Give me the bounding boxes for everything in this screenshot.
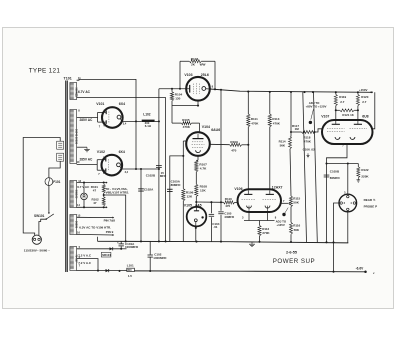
capacitor C102 bbox=[148, 241, 153, 272]
wire V104 grid bbox=[199, 123, 201, 133]
svg-text:-6.6V: -6.6V bbox=[356, 267, 364, 271]
wire 6.3V top bbox=[77, 217, 115, 219]
V105 gas dot bbox=[201, 216, 203, 218]
pentode V104 label bbox=[202, 125, 220, 132]
V104 cathode bbox=[196, 150, 201, 152]
note heater destinations bbox=[105, 187, 129, 195]
capacitor C105A label bbox=[171, 180, 182, 187]
switch SW101 bbox=[46, 212, 54, 220]
pentode tube V103 bbox=[186, 77, 210, 101]
mains label 115/230V 50/60 cy bbox=[24, 248, 50, 252]
pin 8 label bbox=[78, 109, 80, 113]
V103 plate bbox=[186, 85, 189, 93]
dual triode V106 label bbox=[234, 185, 282, 191]
wire V107 pin7 down bbox=[327, 144, 348, 242]
wire humdinger center bbox=[103, 193, 126, 241]
svg-text:PIN 7&8: PIN 7&8 bbox=[104, 219, 116, 223]
label -6.6V bbox=[356, 267, 364, 271]
pin 7 label bbox=[79, 263, 81, 267]
transformer secondary winding (6.3V) bbox=[70, 215, 78, 235]
wire switch to plug right bbox=[39, 219, 46, 235]
svg-text:1000MFD: 1000MFD bbox=[125, 245, 139, 249]
capacitor C102B bbox=[156, 165, 162, 167]
transformer primary tap box upper bbox=[57, 141, 64, 149]
svg-text:50K: 50K bbox=[293, 201, 299, 205]
svg-text:220K: 220K bbox=[361, 174, 369, 178]
V101 plates bbox=[104, 111, 106, 124]
wire V106 pin7 to pot bbox=[281, 202, 289, 204]
svg-text:F101: F101 bbox=[53, 180, 60, 184]
capacitor C102B label bbox=[146, 171, 166, 178]
svg-text:R105: R105 bbox=[182, 118, 190, 122]
pin 5 label bbox=[79, 245, 81, 249]
rectifier tube V102 bbox=[102, 155, 123, 176]
svg-text:80MFD: 80MFD bbox=[330, 176, 341, 180]
wire probe feed horizontal bbox=[325, 162, 358, 164]
wire V105 node bbox=[196, 201, 223, 203]
svg-text:47: 47 bbox=[93, 201, 97, 205]
label 285V AC upper bbox=[80, 118, 94, 122]
wire V104 bottom pin bbox=[196, 156, 198, 161]
junction heater/V102 cathode bbox=[135, 168, 137, 170]
svg-text:300: 300 bbox=[127, 269, 132, 272]
svg-text:1M: 1M bbox=[295, 127, 300, 131]
wire -6.6V rail bbox=[134, 270, 365, 273]
svg-text:56K: 56K bbox=[294, 228, 300, 232]
capacitor C101A bbox=[117, 240, 124, 249]
wire HV bottom to V102 plates bbox=[77, 160, 104, 171]
ground bus junctions bbox=[125, 240, 335, 243]
svg-text:V107: V107 bbox=[321, 115, 329, 119]
svg-text:R109: R109 bbox=[230, 140, 238, 144]
capacitor C104 bbox=[209, 214, 214, 241]
svg-text:2-6-55: 2-6-55 bbox=[286, 250, 297, 254]
wire 7.2V bottom with diode bbox=[77, 269, 128, 272]
wire R103 right leg bbox=[214, 61, 216, 89]
V106 grids bbox=[242, 199, 277, 201]
svg-text:470K: 470K bbox=[304, 139, 312, 143]
pentode tube V104 bbox=[186, 132, 210, 156]
svg-text:R119: R119 bbox=[339, 95, 346, 99]
wire 6.3V bottom bbox=[77, 234, 115, 236]
label 6.7V AC heater bbox=[77, 185, 90, 189]
resistor R119 label bbox=[339, 95, 346, 104]
svg-text:PROBE P: PROBE P bbox=[364, 205, 378, 209]
svg-text:6X4: 6X4 bbox=[119, 102, 125, 106]
resistor R120 bbox=[356, 92, 359, 120]
svg-text:L101: L101 bbox=[127, 263, 134, 267]
wire C104 branch bbox=[210, 202, 212, 213]
transformer secondary winding (6.7V AC top) bbox=[70, 83, 78, 100]
svg-text:12K: 12K bbox=[187, 195, 193, 199]
svg-text:6.1H: 6.1H bbox=[145, 124, 151, 128]
svg-text:47: 47 bbox=[93, 189, 97, 193]
V101 grid dashes bbox=[108, 112, 110, 124]
junction C104 bbox=[210, 201, 212, 203]
V103 pin 8 label bbox=[212, 85, 214, 89]
svg-text:REAR ½: REAR ½ bbox=[364, 198, 376, 202]
ground HV center tap bbox=[77, 147, 90, 152]
label 6.7V AC top bbox=[78, 90, 91, 94]
svg-text:470: 470 bbox=[225, 204, 230, 208]
junction heater/V101 cathode bbox=[135, 120, 137, 122]
potentiometer R115 bbox=[289, 196, 293, 207]
V102 grid dashes bbox=[108, 159, 110, 171]
capacitor C105 bbox=[218, 212, 223, 242]
terminal +150V arrow bbox=[370, 91, 373, 93]
V107 plates bbox=[332, 120, 362, 124]
wire R107 to R108 bbox=[195, 172, 197, 184]
svg-text:365103: 365103 bbox=[74, 190, 78, 199]
svg-text:12K: 12K bbox=[200, 189, 206, 193]
junction heater top bbox=[83, 182, 105, 184]
wire winding pin11 heater top bbox=[77, 79, 136, 169]
resistor R113 label bbox=[272, 117, 280, 126]
junction V102 wire / C102A branch bbox=[140, 168, 142, 170]
wire socket top pin bbox=[347, 164, 349, 195]
inductor L101 value bbox=[128, 274, 132, 278]
rectifier V101 label bbox=[96, 102, 125, 106]
wire socket left pin to -6.6V bbox=[334, 203, 341, 272]
wire fuse to switch bbox=[48, 186, 50, 213]
V104 grids bbox=[192, 142, 205, 148]
svg-text:36042 10538: 36042 10538 bbox=[74, 129, 78, 145]
wire 7.2V top with diode bbox=[77, 247, 122, 250]
inductor L102 values bbox=[145, 121, 151, 128]
svg-text:80MFD: 80MFD bbox=[171, 183, 182, 187]
label +150V bbox=[359, 88, 368, 92]
svg-text:36208: 36208 bbox=[74, 221, 78, 229]
V102 plates bbox=[104, 158, 106, 172]
svg-text:6AU6: 6AU6 bbox=[211, 128, 220, 132]
svg-text:.01: .01 bbox=[213, 225, 218, 229]
V105 cathode bbox=[194, 219, 197, 226]
svg-text:40MFD: 40MFD bbox=[224, 215, 235, 219]
resistor R103 bbox=[180, 60, 215, 63]
label 285V AC lower bbox=[80, 157, 94, 161]
resistor R121 label bbox=[342, 113, 354, 117]
resistor R122 bbox=[357, 164, 360, 178]
svg-text:6.3V AC TO V109 HTR.: 6.3V AC TO V109 HTR. bbox=[79, 226, 111, 230]
resistor R105 label bbox=[182, 118, 191, 129]
svg-text:1000MFD: 1000MFD bbox=[153, 256, 167, 260]
svg-text:115/230V~ 50/60 ~: 115/230V~ 50/60 ~ bbox=[24, 248, 50, 252]
triode-pentode tube V107 bbox=[322, 120, 373, 144]
svg-text:470K: 470K bbox=[273, 122, 281, 126]
wire primary top to plug left bbox=[23, 138, 60, 236]
wire winding pin12 heater bus bbox=[77, 98, 166, 242]
svg-text:R122: R122 bbox=[361, 168, 369, 172]
wire V107 right pin bbox=[373, 92, 375, 129]
resistor R110 label bbox=[225, 197, 232, 208]
svg-text:R113: R113 bbox=[272, 117, 279, 121]
resistor R108 bbox=[195, 184, 198, 196]
inductor L102 bbox=[142, 120, 159, 122]
resistor R109 bbox=[230, 143, 250, 146]
V107 pin 7 label bbox=[342, 144, 344, 148]
V104 plate bbox=[193, 134, 204, 139]
fuse F101 label bbox=[53, 180, 60, 184]
wire V103 bottom pin bbox=[197, 101, 199, 107]
svg-text:12AX7: 12AX7 bbox=[272, 185, 283, 189]
note 6.3V destination bbox=[79, 226, 111, 230]
capacitor C101A label bbox=[125, 242, 139, 249]
pin 6 label bbox=[79, 255, 81, 259]
label 7.2V upper bbox=[78, 254, 92, 258]
transformer T101 label bbox=[64, 77, 72, 81]
svg-text:470: 470 bbox=[231, 149, 236, 153]
capacitor C105 label bbox=[224, 211, 235, 219]
svg-text:270K: 270K bbox=[262, 231, 270, 235]
svg-text:C105B: C105B bbox=[330, 169, 340, 173]
svg-text:L102: L102 bbox=[143, 113, 150, 117]
svg-text:TYPE 121: TYPE 121 bbox=[29, 67, 61, 74]
resistor R116 label bbox=[293, 224, 300, 232]
V106 cathodes bbox=[247, 206, 270, 212]
svg-text:MFD: MFD bbox=[160, 174, 166, 178]
potentiometer R115 label bbox=[293, 196, 300, 204]
svg-text:1.5: 1.5 bbox=[128, 274, 132, 278]
resistor R107 bbox=[195, 160, 198, 172]
wire C101A stub bbox=[121, 248, 126, 250]
V106 pin digits bbox=[242, 199, 285, 220]
socket pin digits bbox=[344, 191, 353, 206]
plug P101 bbox=[32, 235, 41, 244]
wire heater top bbox=[77, 182, 108, 184]
wire R104 bottom bbox=[172, 101, 198, 123]
regulator tube V105 bbox=[187, 207, 207, 227]
pentode V103 label bbox=[184, 73, 208, 77]
transformer secondary winding (285-0-285V) bbox=[70, 110, 78, 164]
svg-text:+150V: +150V bbox=[359, 88, 368, 92]
resistor R110 bbox=[224, 201, 238, 204]
svg-text:C106 .02: C106 .02 bbox=[303, 147, 316, 151]
date 2-6-55 bbox=[286, 250, 297, 254]
svg-text:285V AC: 285V AC bbox=[80, 157, 94, 161]
capacitor C105A bbox=[167, 189, 173, 192]
svg-text:C102A: C102A bbox=[144, 187, 154, 191]
transformer secondary winding (6.7V AC heater) bbox=[70, 181, 78, 208]
svg-text:R121 1K: R121 1K bbox=[342, 113, 354, 117]
ground bus symbol bbox=[249, 242, 255, 247]
label 7.2V lower bbox=[78, 261, 92, 265]
wire C102A branch bbox=[140, 169, 142, 241]
V101 pin digits bbox=[99, 109, 127, 128]
svg-text:7.2 V A.C: 7.2 V A.C bbox=[78, 254, 92, 258]
capacitor C105B bbox=[324, 175, 330, 177]
wire vertical mid-right A bbox=[303, 92, 307, 242]
pin 12 label bbox=[75, 94, 78, 98]
+150V rail bbox=[210, 89, 372, 92]
svg-text:PIN 9: PIN 9 bbox=[106, 230, 114, 234]
adjust note +125V bbox=[276, 208, 289, 227]
caption POWER SUP bbox=[273, 258, 315, 265]
svg-text:2.7: 2.7 bbox=[362, 100, 367, 104]
socket pin contacts bbox=[340, 195, 356, 210]
wire heater bottom bbox=[77, 206, 108, 208]
svg-text:C102B: C102B bbox=[146, 173, 156, 177]
wire V101 cathode to L102 bbox=[123, 120, 142, 122]
terminal -6.6V bbox=[364, 271, 375, 275]
svg-text:R110: R110 bbox=[225, 197, 232, 201]
V106 plates bbox=[244, 191, 274, 195]
pin 16 label bbox=[77, 230, 80, 234]
pin 13 label bbox=[78, 179, 81, 183]
triode-pentode V107 label bbox=[321, 115, 368, 119]
capacitor C102A bbox=[138, 188, 144, 191]
resistor R117 label bbox=[292, 124, 299, 131]
resistor R114 label bbox=[279, 140, 286, 148]
svg-text:+80V TO +120V: +80V TO +120V bbox=[306, 105, 327, 109]
resistor R111 bbox=[247, 92, 250, 191]
svg-text:R120: R120 bbox=[361, 95, 369, 99]
note pin 7and8 bbox=[104, 219, 116, 223]
inductor L102 label bbox=[143, 113, 150, 117]
resistor R114 bbox=[289, 92, 292, 149]
transformer secondary winding (7.2V) bbox=[70, 247, 78, 271]
svg-text:V105: V105 bbox=[184, 203, 192, 207]
rectifier V102 label bbox=[97, 150, 125, 154]
V105 anode bbox=[194, 207, 199, 211]
resistor R112 bbox=[258, 221, 261, 242]
ground bus wire bbox=[98, 237, 349, 243]
wire R108 to V105 bbox=[195, 196, 197, 206]
adjust note +80 to +120 bbox=[306, 101, 327, 124]
probe power socket J101 bbox=[339, 194, 357, 212]
resistor R118 label bbox=[303, 136, 311, 144]
resistor R113 bbox=[268, 92, 271, 191]
V106 cathode bracket bbox=[244, 212, 275, 221]
resistor R106 bbox=[182, 189, 185, 242]
svg-text:V6B,V107 HTRS.: V6B,V107 HTRS. bbox=[106, 191, 130, 195]
svg-text:4.7K: 4.7K bbox=[200, 167, 207, 171]
wire raw B+ to V103 plate bbox=[159, 88, 186, 90]
wire V105 bottom bbox=[195, 226, 197, 241]
resistor R101 bbox=[102, 184, 105, 193]
svg-text:V104: V104 bbox=[202, 125, 210, 129]
svg-text:WW: WW bbox=[200, 62, 206, 66]
resistor R101 label bbox=[91, 185, 99, 192]
wire divider tap to R118 bbox=[290, 131, 302, 133]
inductor L101 bbox=[118, 268, 134, 272]
resistor R111 label bbox=[251, 117, 259, 126]
pin 11 label bbox=[78, 76, 81, 80]
svg-text:285V AC: 285V AC bbox=[80, 118, 94, 122]
svg-text:130: 130 bbox=[175, 96, 180, 100]
resistor R120 label bbox=[361, 95, 369, 104]
wire raw B+ vertical bbox=[158, 89, 160, 242]
V102 pin digits bbox=[98, 157, 128, 177]
wire socket bottom pin bbox=[347, 211, 349, 243]
capacitor C106 note bbox=[303, 147, 316, 157]
pilot lamp B101 bbox=[81, 183, 88, 208]
resistor R118 bbox=[302, 131, 316, 134]
selenium rectifier SR101 bbox=[101, 252, 111, 257]
resistor R107 label bbox=[199, 163, 207, 171]
svg-text:470K: 470K bbox=[183, 125, 191, 129]
transformer T101 core bbox=[65, 81, 67, 273]
svg-text:R103: R103 bbox=[191, 57, 199, 61]
junction B+ node bbox=[158, 120, 160, 170]
resistor R104 label bbox=[175, 92, 183, 100]
wire HV top to V101 plates bbox=[77, 112, 105, 122]
ground below R122 bbox=[357, 178, 361, 183]
switch SW101 label bbox=[34, 214, 45, 218]
title TYPE 121 bbox=[29, 67, 61, 74]
svg-text:V103: V103 bbox=[184, 73, 192, 77]
svg-text:R111: R111 bbox=[251, 117, 258, 121]
V102 cathode bbox=[117, 163, 123, 169]
V101 cathode bbox=[117, 115, 123, 121]
svg-text:6.7V AC: 6.7V AC bbox=[78, 90, 91, 94]
capacitor C102 label bbox=[153, 253, 167, 260]
svg-text:POWER SUP: POWER SUP bbox=[273, 258, 315, 265]
svg-text:V101: V101 bbox=[96, 102, 104, 106]
dual triode tube V106 bbox=[238, 189, 282, 212]
resistor R112 label bbox=[262, 227, 270, 235]
wire V104 right pin to R109 bbox=[210, 143, 230, 145]
capacitor C104 label bbox=[212, 222, 220, 229]
svg-text:T101: T101 bbox=[64, 77, 72, 81]
resistor R105 bbox=[172, 122, 200, 125]
junction -6.6V / probe feed bbox=[332, 271, 334, 273]
wire R114 to R115 bbox=[290, 149, 291, 196]
resistor R102 bbox=[102, 197, 105, 206]
resistor R119 bbox=[334, 92, 337, 120]
wire primary lower to fuse bbox=[49, 161, 60, 177]
wire R103 left leg bbox=[179, 61, 181, 89]
socket label REAR PROBE PWR bbox=[364, 198, 378, 208]
resistor R104 bbox=[170, 88, 173, 101]
svg-text:56K: 56K bbox=[280, 144, 286, 148]
transformer primary tap box lower bbox=[57, 153, 64, 161]
svg-text:+125V: +125V bbox=[276, 223, 285, 227]
svg-text:7.2 V A.C: 7.2 V A.C bbox=[78, 261, 92, 265]
wire V103 cathode out bbox=[206, 88, 210, 90]
svg-text:SR101: SR101 bbox=[102, 253, 111, 257]
inductor L101 label bbox=[127, 263, 134, 267]
regulator V105 label bbox=[184, 203, 202, 207]
wire R118 to V107 bbox=[303, 129, 322, 133]
resistor R102 label bbox=[92, 198, 100, 206]
svg-text:6X4: 6X4 bbox=[119, 150, 125, 154]
capacitor C105B label bbox=[330, 169, 341, 180]
resistor R108 label bbox=[200, 185, 208, 193]
wire 7.2V center bbox=[77, 259, 98, 271]
wire C105 branch vertical bbox=[220, 90, 222, 211]
pin 10 label bbox=[77, 160, 80, 164]
svg-text:6U8: 6U8 bbox=[362, 115, 368, 119]
pin 15 label bbox=[77, 213, 80, 217]
resistor R103 label bbox=[191, 57, 206, 66]
svg-text:SW101: SW101 bbox=[34, 214, 45, 218]
svg-text:3,4: 3,4 bbox=[123, 123, 127, 126]
resistor R116 bbox=[290, 207, 293, 242]
+150V rail junctions bbox=[214, 88, 359, 93]
V103 cathode bbox=[202, 87, 206, 91]
V107 cathodes bbox=[335, 137, 355, 139]
resistor R109 label bbox=[230, 140, 238, 153]
fuse F101 bbox=[45, 178, 53, 186]
wire C105A branch bbox=[170, 155, 185, 242]
resistor R122 label bbox=[361, 168, 369, 178]
rectifier tube V101 bbox=[102, 107, 123, 128]
wire V102 cathode to B+ node bbox=[122, 168, 159, 170]
wire vertical mid-right B bbox=[314, 92, 318, 242]
V103 grids bbox=[194, 83, 200, 94]
pin 14 label bbox=[77, 203, 80, 207]
svg-text:3,4: 3,4 bbox=[125, 171, 129, 174]
